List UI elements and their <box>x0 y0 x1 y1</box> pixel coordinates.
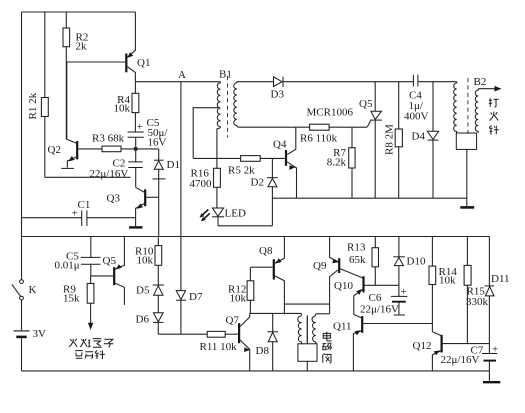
svg-text:D10: D10 <box>407 256 426 268</box>
resistor R16 <box>190 129 221 208</box>
transistor Q10 <box>334 276 399 314</box>
svg-text:C6: C6 <box>369 292 382 304</box>
wire top border <box>22 11 136 13</box>
svg-text:R11 10k: R11 10k <box>200 341 238 353</box>
transformer B1 <box>217 69 239 138</box>
svg-text:Q5: Q5 <box>103 255 117 267</box>
diode D10 <box>393 237 426 297</box>
capacitor C2 <box>89 149 142 187</box>
svg-text:D2: D2 <box>251 177 264 189</box>
svg-text:B1: B1 <box>219 69 232 81</box>
wire D6/D7 bottom row <box>158 333 207 335</box>
svg-text:A: A <box>178 69 186 81</box>
svg-text:R13: R13 <box>347 242 366 254</box>
resistor R15 <box>464 237 488 344</box>
capacitor C5 (0.01u) <box>55 237 101 276</box>
solenoid windings (electromagnetic valve) <box>298 314 317 371</box>
diode D11 <box>485 237 510 344</box>
transistor Q9 <box>313 237 363 314</box>
wire box bottom <box>45 176 131 178</box>
svg-text:+: + <box>137 121 143 133</box>
resistor R8 <box>384 82 403 199</box>
transistor Q1 <box>66 12 150 82</box>
svg-text:B2: B2 <box>474 76 487 88</box>
svg-text:8.2k: 8.2k <box>327 157 347 169</box>
wire section divider <box>22 236 490 238</box>
resistor R14 <box>429 237 457 332</box>
wire solenoid right top <box>316 313 330 315</box>
svg-text:Q7: Q7 <box>226 315 240 327</box>
svg-text:K: K <box>29 284 37 296</box>
svg-text:15k: 15k <box>63 293 80 305</box>
wire C1 row <box>22 217 136 219</box>
diode D6 <box>136 313 164 334</box>
svg-text:+: + <box>72 208 78 220</box>
svg-text:Q3: Q3 <box>107 193 121 205</box>
svg-text:0.01μ: 0.01μ <box>55 260 80 272</box>
svg-text:Q9: Q9 <box>313 260 327 272</box>
resistor R5 <box>228 156 260 177</box>
svg-text:400V: 400V <box>404 111 429 123</box>
wire Q8 base row <box>250 266 272 268</box>
wire R5 row (mid-tap to Q4 base) <box>193 157 285 159</box>
transformer B2 <box>454 76 487 206</box>
svg-text:Q8: Q8 <box>259 245 273 257</box>
svg-text:330k: 330k <box>466 296 489 308</box>
svg-text:65k: 65k <box>349 254 366 266</box>
resistor R6 <box>300 124 367 144</box>
ground B2 <box>460 206 474 209</box>
resistor R12 <box>228 267 254 313</box>
svg-text:LED: LED <box>225 208 246 220</box>
wire bottom rail <box>22 370 490 372</box>
resistor R9 <box>63 276 94 330</box>
svg-text:Q12: Q12 <box>413 340 432 352</box>
capacitor C6 <box>360 286 407 316</box>
diode D2 <box>251 158 278 225</box>
wire Q7 collector row <box>250 312 302 314</box>
wire B1 mid-tap <box>193 108 219 159</box>
capacitor C4 <box>404 75 457 123</box>
resistor R11 <box>200 331 239 353</box>
transistor Q7 <box>226 313 251 371</box>
svg-text:3V: 3V <box>33 328 47 340</box>
svg-text:10k: 10k <box>137 255 154 267</box>
transistor Q4 <box>273 127 297 198</box>
svg-text:D1: D1 <box>167 159 180 171</box>
svg-text:4700: 4700 <box>190 178 213 190</box>
transistor Q8 <box>259 237 284 315</box>
spark output arrow <box>478 86 501 92</box>
svg-text:Q10: Q10 <box>334 280 353 292</box>
node junction dot <box>134 147 138 151</box>
svg-text:22μ/16V: 22μ/16V <box>89 168 128 180</box>
svg-text:Q1: Q1 <box>137 57 150 69</box>
wire A vertical <box>180 82 182 237</box>
svg-text:22μ/16V: 22μ/16V <box>360 304 399 316</box>
svg-text:R1 2k: R1 2k <box>27 92 39 119</box>
svg-text:C1: C1 <box>78 199 91 211</box>
wire left border (battery/switch rail) <box>21 12 23 371</box>
diode D4 <box>412 82 439 199</box>
diode D1 <box>153 149 180 197</box>
svg-text:Q5: Q5 <box>359 98 373 110</box>
thyristor Q5 (SCR) <box>359 82 382 199</box>
svg-text:R8 2M: R8 2M <box>384 124 396 155</box>
wire B1 secondary bottom to gate row <box>239 126 310 128</box>
diode D5 <box>136 285 164 313</box>
label spark needle (da huo zhen) <box>489 98 499 134</box>
transistor Q2 <box>48 62 79 168</box>
svg-text:D4: D4 <box>412 131 426 143</box>
wire node A rail <box>135 81 220 83</box>
svg-text:Q2: Q2 <box>48 144 61 156</box>
wire node to D1 <box>136 148 159 150</box>
capacitor C5 (50u/16V) <box>128 117 169 149</box>
transistor Q3 <box>107 187 159 236</box>
transistor Q5 (flame sense, PNP) <box>91 237 125 305</box>
label flame ion sensing needle <box>69 339 113 359</box>
capacitor C1 <box>72 199 91 226</box>
svg-text:16V: 16V <box>148 137 167 149</box>
svg-text:D8: D8 <box>256 345 270 357</box>
resistor R7 <box>327 127 355 198</box>
svg-text:D11: D11 <box>491 273 510 285</box>
svg-text:10k: 10k <box>230 293 247 305</box>
svg-text:2k: 2k <box>76 41 88 53</box>
resistor R10 <box>135 237 162 286</box>
svg-text:D5: D5 <box>136 285 150 297</box>
svg-text:R5 2k: R5 2k <box>228 165 255 177</box>
diode D7 <box>176 237 203 335</box>
svg-text:D6: D6 <box>136 314 150 326</box>
wire middle rail <box>272 197 466 199</box>
ground bottom right <box>483 371 500 382</box>
resistor R2 <box>63 12 88 139</box>
svg-text:22μ/16V: 22μ/16V <box>441 354 480 366</box>
svg-text:+: + <box>492 344 498 356</box>
svg-text:10k: 10k <box>439 275 456 287</box>
battery 3V <box>14 328 47 340</box>
label solenoid valve (dian ci fa) <box>323 332 332 363</box>
transistor Q11 <box>333 315 432 371</box>
transistor Q12 <box>413 332 490 371</box>
diode D3 <box>237 77 414 101</box>
diode D8 <box>256 313 279 371</box>
svg-text:D7: D7 <box>189 291 203 303</box>
LED <box>200 208 246 226</box>
resistor R1 <box>27 12 48 177</box>
wire LED bottom <box>218 225 272 227</box>
svg-text:MCR1006: MCR1006 <box>307 107 354 119</box>
capacitor C7 <box>441 344 499 371</box>
svg-text:R6 110k: R6 110k <box>300 133 338 145</box>
wire Q8 collector row <box>284 303 329 305</box>
svg-text:10k: 10k <box>114 103 131 115</box>
svg-text:Q11: Q11 <box>333 321 352 333</box>
svg-text:R3 68k: R3 68k <box>92 133 125 145</box>
resistor R13 <box>347 237 379 286</box>
svg-text:Q4: Q4 <box>273 139 287 151</box>
svg-text:+: + <box>401 286 407 298</box>
svg-text:D3: D3 <box>271 89 285 101</box>
switch K <box>12 280 37 300</box>
resistor R3 <box>78 133 135 152</box>
ground bar Q3 emitter <box>129 218 143 228</box>
resistor R4 <box>114 82 139 132</box>
